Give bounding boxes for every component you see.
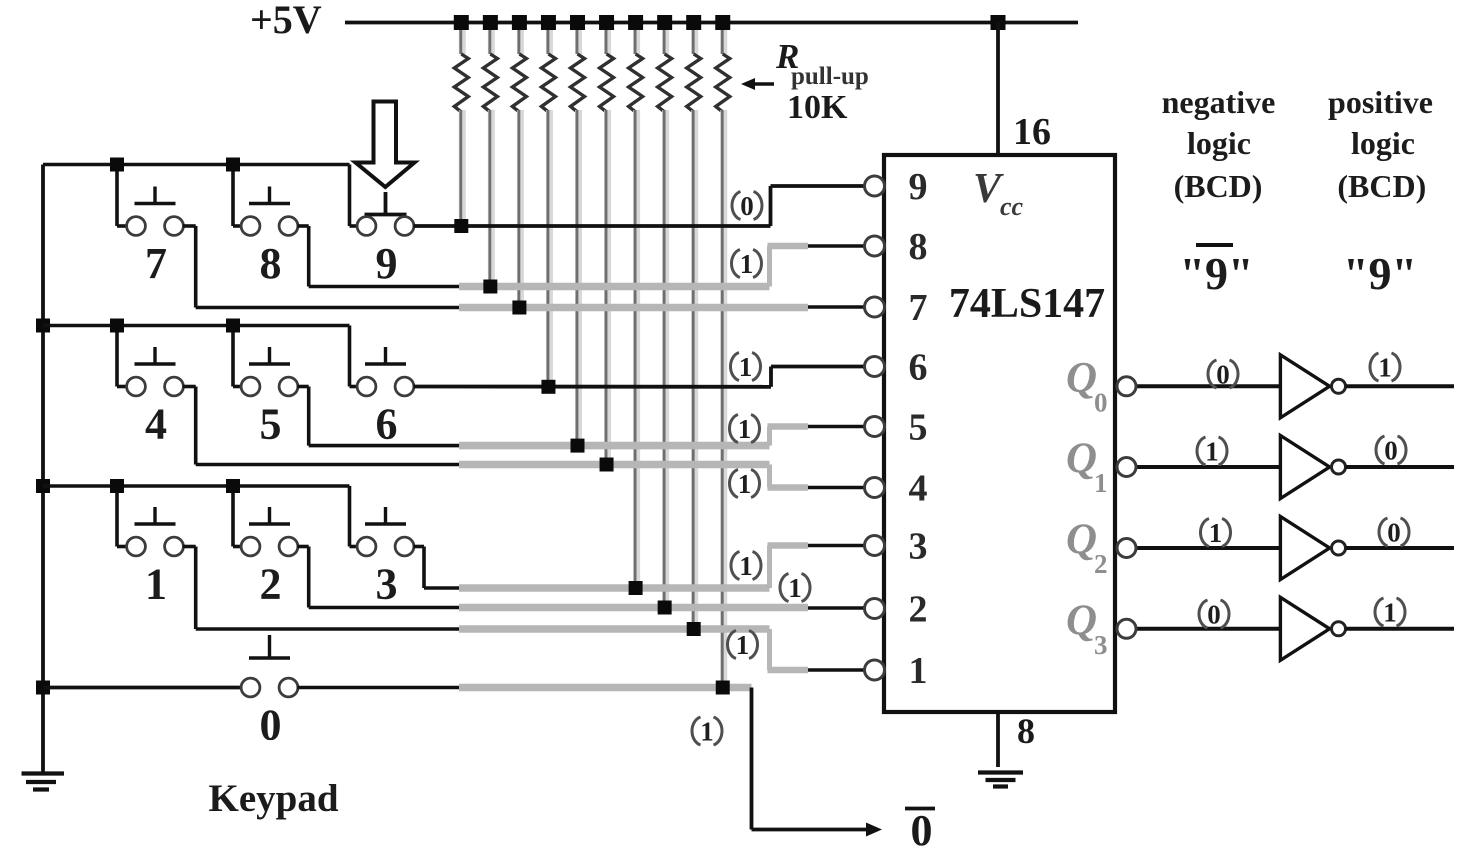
label (1) row 4 [729, 469, 759, 499]
press arrow on button 9 [356, 102, 415, 188]
label Q2 [1066, 516, 1108, 579]
svg-text:7: 7 [909, 287, 928, 329]
svg-text:1: 1 [738, 414, 752, 444]
svg-text:3: 3 [376, 560, 398, 609]
wire resistor column 8 vertical [664, 110, 666, 608]
pushbutton 7 [127, 187, 184, 289]
resistor R4 pull-up 10K [541, 23, 555, 113]
wire row 7 to pin 7 (high) [183, 226, 866, 315]
label (0) inverter input Q3 [1199, 600, 1229, 630]
wire row 8 to pin 8 (high) [298, 226, 866, 294]
resistor R2 pull-up 10K [483, 23, 497, 113]
label (1) row 8 [731, 249, 761, 279]
label (1) row 0 [692, 717, 722, 747]
resistor R7 pull-up 10K [629, 23, 643, 113]
junction dots on ground bus [36, 319, 50, 695]
svg-text:0: 0 [1387, 518, 1401, 548]
wire keypad row bus 1 [43, 158, 358, 227]
wire resistor column 2 vertical [490, 110, 492, 287]
label positive logic (BCD) [1328, 84, 1433, 204]
pushbutton 2 [241, 507, 298, 609]
svg-text:(BCD): (BCD) [1174, 168, 1263, 204]
svg-text:16: 16 [1013, 111, 1051, 153]
wire row 5 to pin 5 (high) [298, 387, 866, 453]
label Keypad [208, 777, 338, 820]
label (0) inverter output Q2 [1379, 518, 1409, 548]
svg-text:+5V: +5V [250, 0, 322, 42]
svg-text:74LS147: 74LS147 [949, 281, 1105, 327]
junction dots on +5V rail [454, 15, 1006, 30]
svg-text:3: 3 [1094, 630, 1108, 660]
ground symbol keypad [22, 774, 65, 790]
svg-text:4: 4 [145, 400, 167, 449]
wire resistor column 9 vertical [693, 110, 695, 629]
svg-text:Q: Q [1066, 354, 1097, 401]
wire row 4 to pin 4 (high) [183, 387, 866, 488]
Q1 output pin circle [1117, 458, 1136, 477]
svg-text:1: 1 [909, 650, 928, 692]
pushbutton 9 [357, 192, 414, 288]
wire resistor column 7 vertical [635, 110, 637, 588]
wire resistor column 10 vertical [722, 110, 724, 688]
svg-text:1: 1 [788, 573, 802, 603]
label quoted 9-bar negative [1179, 245, 1253, 299]
svg-text:5: 5 [260, 400, 282, 449]
wire resistor column 5 vertical [577, 110, 579, 446]
inverter U2 on Q0 [1136, 355, 1455, 418]
wire row 6 to pin 6 (high, black) [414, 367, 866, 394]
wire keypad ground bus vertical [41, 165, 45, 773]
pushbutton 3 [357, 507, 414, 609]
svg-text:logic: logic [1187, 125, 1251, 161]
svg-text:6: 6 [909, 347, 928, 389]
resistor R3 pull-up 10K [512, 23, 526, 113]
inverter U5 on Q3 [1136, 597, 1455, 660]
Q3 output pin circle [1117, 619, 1136, 638]
resistor R10 pull-up 10K [716, 23, 730, 113]
svg-text:Q: Q [1066, 435, 1097, 482]
svg-text:0: 0 [1094, 387, 1108, 417]
Q0 output pin circle [1117, 377, 1136, 396]
wire Vcc pin 16 [996, 23, 1000, 156]
svg-text:"9": "9" [1343, 248, 1417, 299]
pushbutton 6 [357, 347, 414, 449]
label Q0 [1066, 354, 1108, 417]
node +5V power rail [345, 21, 1078, 25]
svg-text:1: 1 [1378, 353, 1392, 383]
ground symbol IC [978, 773, 1023, 787]
svg-text:pull-up: pull-up [791, 63, 869, 90]
wire resistor column 6 vertical [606, 110, 608, 465]
wire resistor column 4 vertical [548, 110, 550, 387]
resistor R6 pull-up 10K [600, 23, 614, 113]
IC input pin numbers [909, 166, 928, 692]
svg-text:2: 2 [260, 560, 282, 609]
IC input pin circles [865, 176, 885, 680]
wire IC pin 8 to ground [996, 712, 1000, 767]
label (1) inverter output Q0 [1370, 353, 1400, 383]
pushbutton 4 [127, 347, 184, 449]
svg-text:0: 0 [1216, 360, 1230, 390]
resistor R8 pull-up 10K [658, 23, 672, 113]
label 74LS147 [949, 281, 1105, 327]
svg-text:Q: Q [1066, 597, 1097, 644]
wire row 0 (high) [298, 681, 752, 695]
label negative logic (BCD) [1162, 84, 1276, 204]
label (1) row 5 [729, 414, 759, 444]
svg-text:0: 0 [1384, 436, 1398, 466]
svg-text:2: 2 [1094, 549, 1108, 579]
svg-text:3: 3 [909, 526, 928, 568]
svg-text:7: 7 [145, 239, 167, 288]
label R pull-up with arrow [741, 37, 869, 126]
label (1) row 6 [730, 352, 760, 382]
label (1) inverter input Q1 [1197, 437, 1227, 467]
pushbutton 1 [127, 507, 184, 609]
resistor R9 pull-up 10K [687, 23, 701, 113]
pushbutton 5 [241, 347, 298, 449]
label (1) row 1 [727, 630, 757, 660]
wire row 2 to pin 2 (high) [298, 547, 866, 615]
wire row 3 to pin 3 (high) [414, 546, 866, 596]
svg-text:8: 8 [1017, 711, 1035, 751]
label Q3 [1066, 597, 1108, 660]
label (1) inverter input Q2 [1200, 518, 1230, 548]
label +5V [250, 0, 322, 42]
svg-text:logic: logic [1351, 125, 1415, 161]
wire resistor column 3 vertical [519, 110, 521, 308]
wire row 9 to pin 9 (low) [414, 186, 866, 233]
label pin 16 [1013, 111, 1051, 153]
svg-text:9: 9 [909, 166, 928, 208]
label (0) row 9 [732, 191, 762, 221]
Q2 output pin circle [1117, 539, 1136, 558]
svg-text:1: 1 [738, 469, 752, 499]
svg-text:Q: Q [1066, 516, 1097, 563]
svg-text:8: 8 [909, 226, 928, 268]
IC U1 74LS147 box [884, 155, 1115, 712]
label pin 8 [1017, 711, 1035, 751]
svg-text:1: 1 [1205, 437, 1219, 467]
pushbutton 8 [241, 187, 298, 289]
svg-text:1: 1 [736, 630, 750, 660]
label Q1 [1066, 435, 1108, 498]
label output 0-bar [905, 806, 935, 855]
wire keypad row bus 3 [43, 479, 358, 547]
svg-text:1: 1 [1383, 598, 1397, 628]
svg-text:0: 0 [260, 701, 282, 750]
pushbutton 0 [241, 635, 298, 750]
label Vcc [973, 166, 1024, 221]
svg-text:positive: positive [1328, 84, 1433, 120]
svg-text:1: 1 [740, 249, 754, 279]
svg-text:(BCD): (BCD) [1337, 168, 1426, 204]
svg-text:1: 1 [739, 352, 753, 382]
label (1) row 2 [780, 573, 810, 603]
inverter U4 on Q2 [1136, 517, 1455, 580]
svg-text:1: 1 [739, 551, 753, 581]
inverter U3 on Q1 [1136, 436, 1455, 499]
svg-text:8: 8 [260, 239, 282, 288]
svg-text:5: 5 [909, 407, 928, 449]
svg-text:cc: cc [1000, 192, 1024, 221]
label (1) row 3 [731, 551, 761, 581]
wire keypad row bus 2 [43, 319, 358, 387]
svg-text:0: 0 [911, 806, 933, 855]
svg-text:9: 9 [376, 239, 398, 288]
resistor R1 pull-up 10K [454, 23, 468, 113]
svg-text:1: 1 [1094, 468, 1108, 498]
label (1) inverter output Q3 [1375, 598, 1405, 628]
resistor R5 pull-up 10K [571, 23, 585, 113]
svg-text:negative: negative [1162, 84, 1276, 120]
svg-text:10K: 10K [787, 89, 848, 126]
svg-text:2: 2 [909, 589, 928, 631]
svg-text:0: 0 [740, 191, 754, 221]
label (0) inverter output Q1 [1376, 436, 1406, 466]
svg-text:1: 1 [145, 560, 167, 609]
svg-text:Keypad: Keypad [208, 777, 338, 820]
wire resistor column 1 vertical [461, 110, 463, 226]
label (0) inverter input Q0 [1208, 360, 1238, 390]
svg-text:"9": "9" [1179, 248, 1253, 299]
wire ground bus to button 0 [43, 686, 242, 690]
wire row 0 output to NOT-0 node [752, 688, 883, 837]
svg-text:1: 1 [1209, 518, 1223, 548]
wire row 1 to pin 1 (high) [183, 547, 866, 671]
svg-text:1: 1 [700, 717, 714, 747]
svg-text:0: 0 [1207, 600, 1221, 630]
svg-text:6: 6 [376, 400, 398, 449]
label quoted 9 positive [1343, 248, 1417, 299]
svg-text:4: 4 [909, 468, 928, 510]
